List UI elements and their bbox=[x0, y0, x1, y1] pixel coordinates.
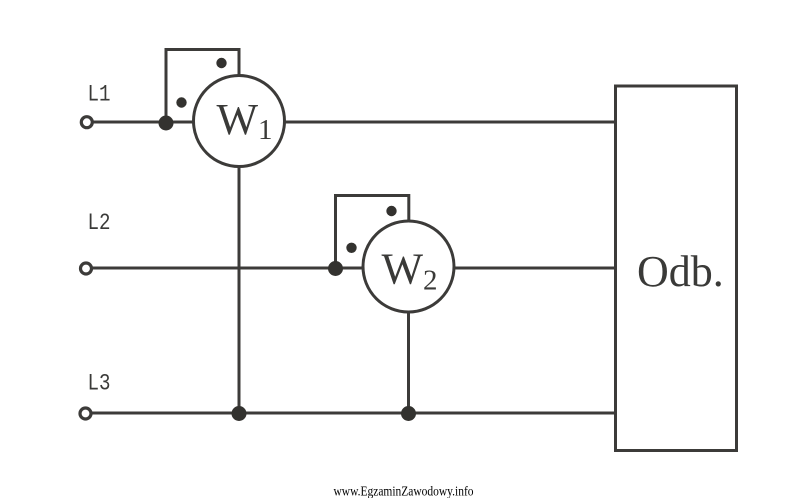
wire L2 horizontal bbox=[88, 267, 617, 270]
wire L3 horizontal bbox=[88, 412, 617, 415]
wire W2 voltage branch vertical to L3 bbox=[407, 268, 410, 413]
polarity dot W2 upper bbox=[386, 206, 396, 216]
svg-text:www.EgzaminZawodowy.info: www.EgzaminZawodowy.info bbox=[334, 484, 474, 498]
polarity dot W2 lower bbox=[346, 243, 356, 253]
wattmeter W2 bbox=[363, 221, 454, 312]
svg-text:L3: L3 bbox=[88, 371, 111, 397]
load box Odb. bbox=[616, 86, 737, 451]
current coil square of wattmeter W1 bbox=[166, 50, 239, 123]
node junction W2 branch / L3 bbox=[401, 406, 416, 421]
polarity dot W1 upper bbox=[216, 58, 226, 68]
wire L1 horizontal bbox=[88, 121, 617, 124]
node junction L2 / W2 bbox=[328, 261, 343, 276]
terminal L3 bbox=[80, 408, 91, 419]
node junction L1 / W1 bbox=[159, 116, 174, 131]
svg-text:L1: L1 bbox=[88, 82, 111, 108]
wattmeter W1 bbox=[194, 76, 285, 167]
svg-text:L2: L2 bbox=[88, 210, 111, 236]
svg-text:Odb.: Odb. bbox=[637, 247, 724, 296]
node junction W1 branch / L3 bbox=[232, 406, 247, 421]
wire W1 voltage branch vertical to L3 bbox=[238, 122, 241, 413]
current coil square of wattmeter W2 bbox=[336, 196, 409, 269]
polarity dot W1 lower bbox=[176, 97, 186, 107]
terminal L1 bbox=[81, 117, 92, 128]
terminal L2 bbox=[81, 263, 92, 274]
